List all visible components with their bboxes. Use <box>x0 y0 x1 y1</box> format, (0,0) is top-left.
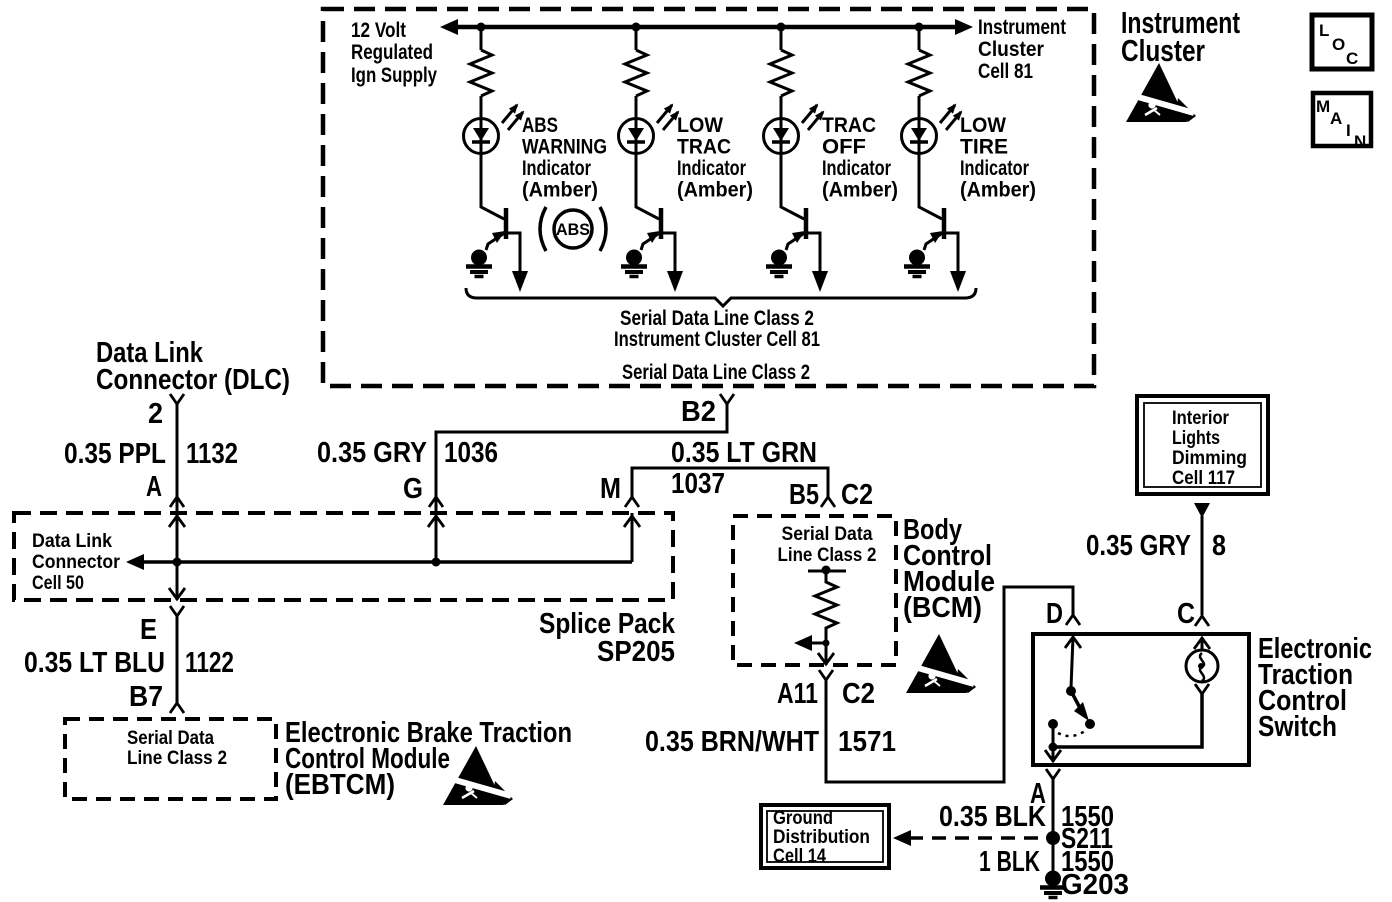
arrow: collector to serial data line (TRAC OFF indicator) <box>812 271 828 292</box>
connector: E (female half) <box>170 606 184 616</box>
connector: DLC pin 2 (female half) <box>170 394 184 404</box>
node: ign bus junction (LOW TRAC indicator) <box>632 23 641 32</box>
svg-text:Switch: Switch <box>1258 711 1337 743</box>
wire: C entry to lamp <box>1201 638 1204 651</box>
brace: serial data line group <box>466 288 976 306</box>
connector: M (male half) <box>625 497 639 507</box>
svg-text:D: D <box>1046 598 1063 630</box>
svg-text:Interior: Interior <box>1172 408 1230 429</box>
label: Serial Data Line Class 2 (EBTCM) <box>127 728 227 769</box>
wire: bus to resistor (ABS WARNING indicator) <box>480 27 483 50</box>
node: switch pivot <box>1066 686 1076 696</box>
wire: resistor to LED (ABS WARNING indicator) <box>480 96 483 120</box>
svg-text:B2: B2 <box>681 396 716 428</box>
svg-text:Line Class 2: Line Class 2 <box>778 545 877 566</box>
wire: 0.35 BLK 1550 (A to S211) and 1 BLK 1550 (S211 to G203) <box>1052 779 1055 872</box>
node: bus junction at G riser <box>432 558 441 567</box>
svg-text:0.35 BRN/WHT: 0.35 BRN/WHT <box>645 726 819 758</box>
arrow: C entry up <box>1194 638 1210 649</box>
connector: C (male half) <box>1195 616 1209 626</box>
transistor (ABS WARNING indicator driver) <box>486 208 520 272</box>
LED LOW TRAC indicator indicator lamp <box>619 105 679 154</box>
svg-text:Line Class 2: Line Class 2 <box>127 748 227 769</box>
svg-text:0.35 GRY: 0.35 GRY <box>317 437 427 469</box>
wire: LED to transistor base (LOW TRAC indicator) <box>636 153 659 219</box>
label: ABS WARNING indicator <box>522 114 607 202</box>
svg-text:LOW: LOW <box>960 114 1006 137</box>
label: Ground Distribution Cell 14 <box>773 808 870 867</box>
module box: Data Link Connector Cell 50 / Splice Pack SP205 (dashed) <box>14 513 673 600</box>
wire: bus to resistor (TRAC OFF indicator) <box>780 27 783 50</box>
svg-text:Regulated: Regulated <box>351 41 433 64</box>
resistor (TRAC OFF indicator) <box>770 50 792 96</box>
arrow: A riser down to E <box>169 588 185 599</box>
module box: Body Control Module (dashed) <box>733 516 896 665</box>
label: Instrument Cluster (module name) <box>1121 5 1240 68</box>
cell box: Ground Distribution Cell 14 <box>761 805 889 868</box>
svg-text:Serial Data Line Class 2: Serial Data Line Class 2 <box>620 307 814 330</box>
svg-text:Ign Supply: Ign Supply <box>351 64 437 87</box>
connector: A11 (female half) <box>819 670 833 680</box>
svg-text:I: I <box>1346 121 1351 140</box>
arrow: to Ground Distribution Cell 14 <box>893 830 911 846</box>
button: LOC <box>1312 15 1372 69</box>
svg-text:C: C <box>1346 49 1358 68</box>
arrow: collector to serial data line (ABS WARNING indicator) <box>512 271 528 292</box>
svg-text:C2: C2 <box>842 678 875 710</box>
svg-text:Dimming: Dimming <box>1172 448 1247 469</box>
wire: D to switch pivot <box>1071 637 1073 688</box>
svg-text:WARNING: WARNING <box>522 136 607 159</box>
svg-text:(Amber): (Amber) <box>677 179 753 202</box>
svg-text:Connector: Connector <box>32 552 121 573</box>
svg-text:Instrument: Instrument <box>978 16 1066 39</box>
wire: resistor to A11 <box>825 634 828 665</box>
svg-text:ABS: ABS <box>556 220 590 239</box>
arrow: G riser up <box>428 516 444 527</box>
wire: 0.35 GRY 1036 (B2 to G) <box>436 404 727 513</box>
label: Body Control Module (BCM) <box>903 514 995 624</box>
button: MAIN <box>1313 93 1371 151</box>
svg-text:Distribution: Distribution <box>773 827 870 848</box>
label: 12 Volt Regulated Ign Supply <box>351 19 437 87</box>
svg-text:1036: 1036 <box>444 437 498 469</box>
svg-text:OFF: OFF <box>822 136 866 159</box>
arrow: A riser up <box>169 516 185 527</box>
svg-text:Instrument Cluster Cell 81: Instrument Cluster Cell 81 <box>614 328 820 351</box>
svg-text:Serial Data Line Class 2: Serial Data Line Class 2 <box>622 361 810 384</box>
svg-text:C2: C2 <box>841 479 873 511</box>
svg-text:N: N <box>1354 132 1366 151</box>
arrow: exit down to A <box>1045 750 1061 761</box>
svg-text:Cell 81: Cell 81 <box>978 60 1033 83</box>
splice: S211 <box>1046 831 1060 845</box>
svg-text:1122: 1122 <box>185 647 234 679</box>
resistor (ABS WARNING indicator) <box>470 50 492 96</box>
svg-text:(Amber): (Amber) <box>960 179 1036 202</box>
LED TRAC OFF indicator indicator lamp <box>764 105 824 154</box>
svg-text:Indicator: Indicator <box>677 157 746 180</box>
module box: EBTCM serial data (dashed) <box>65 719 276 799</box>
node: switch blade contact <box>1085 719 1095 729</box>
connector: lamp lower (female half) <box>1195 684 1209 694</box>
svg-text:O: O <box>1332 35 1345 54</box>
svg-text:Indicator: Indicator <box>522 157 591 180</box>
svg-text:LOW: LOW <box>677 114 723 137</box>
node: ign bus junction (ABS WARNING indicator) <box>477 23 486 32</box>
LED ABS WARNING indicator indicator lamp <box>464 105 524 154</box>
svg-text:Cell 50: Cell 50 <box>32 573 84 594</box>
svg-text:1 BLK: 1 BLK <box>979 846 1040 878</box>
svg-text:ABS: ABS <box>522 114 558 137</box>
symbol: (ABS) telltale <box>540 207 606 251</box>
svg-text:Data Link: Data Link <box>32 531 112 552</box>
arrow: collector to serial data line (LOW TRAC indicator) <box>667 271 683 292</box>
connector: B2 (female half) <box>720 394 734 404</box>
wire: LED to transistor base (TRAC OFF indicator) <box>781 153 804 219</box>
wire: 0.35 GRY 8 (dimming to C) <box>1201 516 1204 615</box>
resistor (BCM termination) <box>815 571 837 634</box>
svg-text:SP205: SP205 <box>597 636 675 668</box>
svg-text:TIRE: TIRE <box>960 136 1008 159</box>
arrow: bus to 12V supply (left) <box>440 19 458 35</box>
svg-text:0.35 LT BLU: 0.35 LT BLU <box>24 647 165 679</box>
svg-text:(Amber): (Amber) <box>822 179 898 202</box>
icon: ESD symbol (BCM) <box>906 634 976 693</box>
svg-text:TRAC: TRAC <box>822 114 876 137</box>
dashed travel arc <box>1058 731 1085 736</box>
node: switch left contact <box>1048 719 1058 729</box>
wire: 0.35 LT GRN 1037 (M to B5) <box>632 468 828 497</box>
svg-text:B7: B7 <box>129 681 163 713</box>
svg-text:(Amber): (Amber) <box>522 179 598 202</box>
transistor (TRAC OFF indicator driver) <box>786 208 820 272</box>
label: Serial Data Line Class 2 (BCM) <box>778 524 877 566</box>
arrow: BCM wire down <box>818 653 834 664</box>
ground: emitter of ABS WARNING indicator driver <box>466 250 492 277</box>
switch blade (momentary) <box>1071 691 1089 721</box>
svg-text:Ground: Ground <box>773 808 833 829</box>
icon: ESD symbol (Instrument Cluster) <box>1126 63 1196 122</box>
svg-text:Lights: Lights <box>1172 428 1220 449</box>
svg-text:A: A <box>1330 109 1342 128</box>
svg-text:0.35 BLK: 0.35 BLK <box>939 801 1046 833</box>
svg-text:M: M <box>1316 97 1330 116</box>
arrow: M riser up <box>624 516 640 527</box>
node: lamp return junction <box>1049 743 1058 752</box>
svg-text:Cluster: Cluster <box>1121 33 1205 68</box>
wire: resistor to LED (LOW TRAC indicator) <box>635 96 638 120</box>
node: ign bus junction (LOW TIRE indicator) <box>915 23 924 32</box>
cell box: Interior Lights Dimming Cell 117 <box>1137 396 1268 494</box>
node: bus junction at A riser <box>173 558 182 567</box>
svg-text:Serial Data: Serial Data <box>782 524 873 545</box>
module box: Instrument Cluster (dashed) <box>323 9 1094 386</box>
arrow: bus to Instrument Cluster Cell 81 (right) <box>955 19 973 35</box>
svg-text:Cell 14: Cell 14 <box>773 846 826 867</box>
svg-text:1037: 1037 <box>671 468 725 500</box>
label: LOW TRAC indicator <box>677 114 753 202</box>
svg-text:1571: 1571 <box>838 726 896 758</box>
svg-text:0.35 PPL: 0.35 PPL <box>64 438 166 470</box>
label: TRAC OFF indicator <box>822 114 898 202</box>
ground: emitter of LOW TIRE indicator driver <box>904 250 930 277</box>
resistor (LOW TIRE indicator) <box>908 50 930 96</box>
wire: serial data bus inside splice pack <box>130 560 632 564</box>
wire: left contact down to A <box>1052 724 1055 762</box>
wire: resistor to LED (TRAC OFF indicator) <box>780 96 783 120</box>
wire: LED to transistor base (LOW TIRE indicator) <box>919 153 942 219</box>
label: Electronic Traction Control Switch <box>1258 633 1372 743</box>
wire: 0.35 BRN/WHT 1571 (A11 to D) <box>826 587 1073 782</box>
transistor (LOW TRAC indicator driver) <box>641 208 675 272</box>
connector: A (male half) <box>170 497 184 507</box>
ground: emitter of TRAC OFF indicator driver <box>766 250 792 277</box>
svg-text:Cell 117: Cell 117 <box>1172 468 1235 489</box>
LED LOW TIRE indicator indicator lamp <box>902 105 962 154</box>
connector: D (male half) <box>1066 615 1080 625</box>
svg-text:0.35 LT GRN: 0.35 LT GRN <box>671 437 817 469</box>
label: Data Link Connector (DLC) <box>96 337 290 396</box>
arrow: D entry up <box>1065 637 1081 648</box>
lamp: traction switch indicator <box>1186 650 1218 682</box>
wire: BCM internal stub <box>808 570 846 573</box>
svg-text:(BCM): (BCM) <box>903 592 982 624</box>
component box: Electronic Traction Control Switch <box>1033 634 1249 765</box>
svg-text:G: G <box>403 473 423 505</box>
wire: dashed ground distribution link <box>909 836 1046 840</box>
connector: A (switch ground, female half) <box>1046 769 1060 779</box>
label: LOW TIRE indicator <box>960 114 1036 202</box>
wire: G riser <box>435 513 438 562</box>
svg-text:8: 8 <box>1212 530 1226 562</box>
ground: G203 <box>1040 871 1066 898</box>
connector: B7 (male half) <box>170 703 184 713</box>
node: ign bus junction (TRAC OFF indicator) <box>777 23 786 32</box>
svg-text:0.35 GRY: 0.35 GRY <box>1086 530 1191 562</box>
label: Instrument Cluster Cell 81 <box>978 16 1066 83</box>
wire: LED to transistor base (ABS WARNING indicator) <box>481 153 504 219</box>
svg-text:E: E <box>140 614 157 646</box>
svg-text:2: 2 <box>148 398 163 430</box>
wire: M riser <box>631 513 634 562</box>
arrow: BCM internal tap (left) <box>794 635 830 651</box>
svg-text:L: L <box>1319 21 1329 40</box>
arrow: bus to Data Link Connector Cell 50 <box>126 554 144 570</box>
svg-text:12 Volt: 12 Volt <box>351 19 406 42</box>
ground: emitter of LOW TRAC indicator driver <box>621 250 647 277</box>
svg-text:Connector (DLC): Connector (DLC) <box>96 364 290 396</box>
svg-text:G203: G203 <box>1061 869 1129 901</box>
svg-text:A: A <box>146 471 162 503</box>
label: Electronic Brake Traction Control Module (EBTCM) <box>285 717 572 801</box>
svg-text:C: C <box>1177 598 1195 630</box>
svg-text:Indicator: Indicator <box>822 157 891 180</box>
connector: B5 (male half) <box>821 497 835 507</box>
label: Splice Pack SP205 <box>539 608 676 668</box>
wire: bus to resistor (LOW TRAC indicator) <box>635 27 638 50</box>
transistor (LOW TIRE indicator driver) <box>924 208 958 272</box>
label: Interior Lights Dimming Cell 117 <box>1172 408 1247 489</box>
wire: A riser through splice pack <box>176 513 179 600</box>
wire: 12V ign supply bus <box>449 25 966 30</box>
node: BCM stub junction <box>822 566 831 575</box>
wire: resistor to LED (LOW TIRE indicator) <box>918 96 921 120</box>
arrow: collector to serial data line (LOW TIRE indicator) <box>950 271 966 292</box>
svg-text:Serial Data: Serial Data <box>127 728 214 749</box>
svg-text:A11: A11 <box>777 678 818 710</box>
svg-text:Indicator: Indicator <box>960 157 1029 180</box>
connector: G (male half) <box>429 497 443 507</box>
wire: 0.35 PPL 1132 (DLC pin 2 to A) <box>176 404 179 513</box>
svg-text:Cluster: Cluster <box>978 38 1044 61</box>
arrow: from Interior Lights Dimming cell (down) <box>1194 503 1210 518</box>
icon: ESD symbol (EBTCM) <box>443 746 513 805</box>
label: Data Link Connector Cell 50 <box>32 531 121 594</box>
svg-text:M: M <box>600 473 621 505</box>
svg-text:1132: 1132 <box>186 438 238 470</box>
svg-text:B5: B5 <box>789 479 819 511</box>
label: Serial Data Line Class 2 / Instrument Cluster Cell 81 <box>614 307 820 351</box>
svg-text:(EBTCM): (EBTCM) <box>285 769 395 801</box>
wire: 0.35 LT BLU 1122 (E to B7) <box>176 616 179 703</box>
wire: lamp return <box>1053 694 1202 747</box>
svg-text:TRAC: TRAC <box>677 136 731 159</box>
resistor (LOW TRAC indicator) <box>625 50 647 96</box>
wire: bus to resistor (LOW TIRE indicator) <box>918 27 921 50</box>
